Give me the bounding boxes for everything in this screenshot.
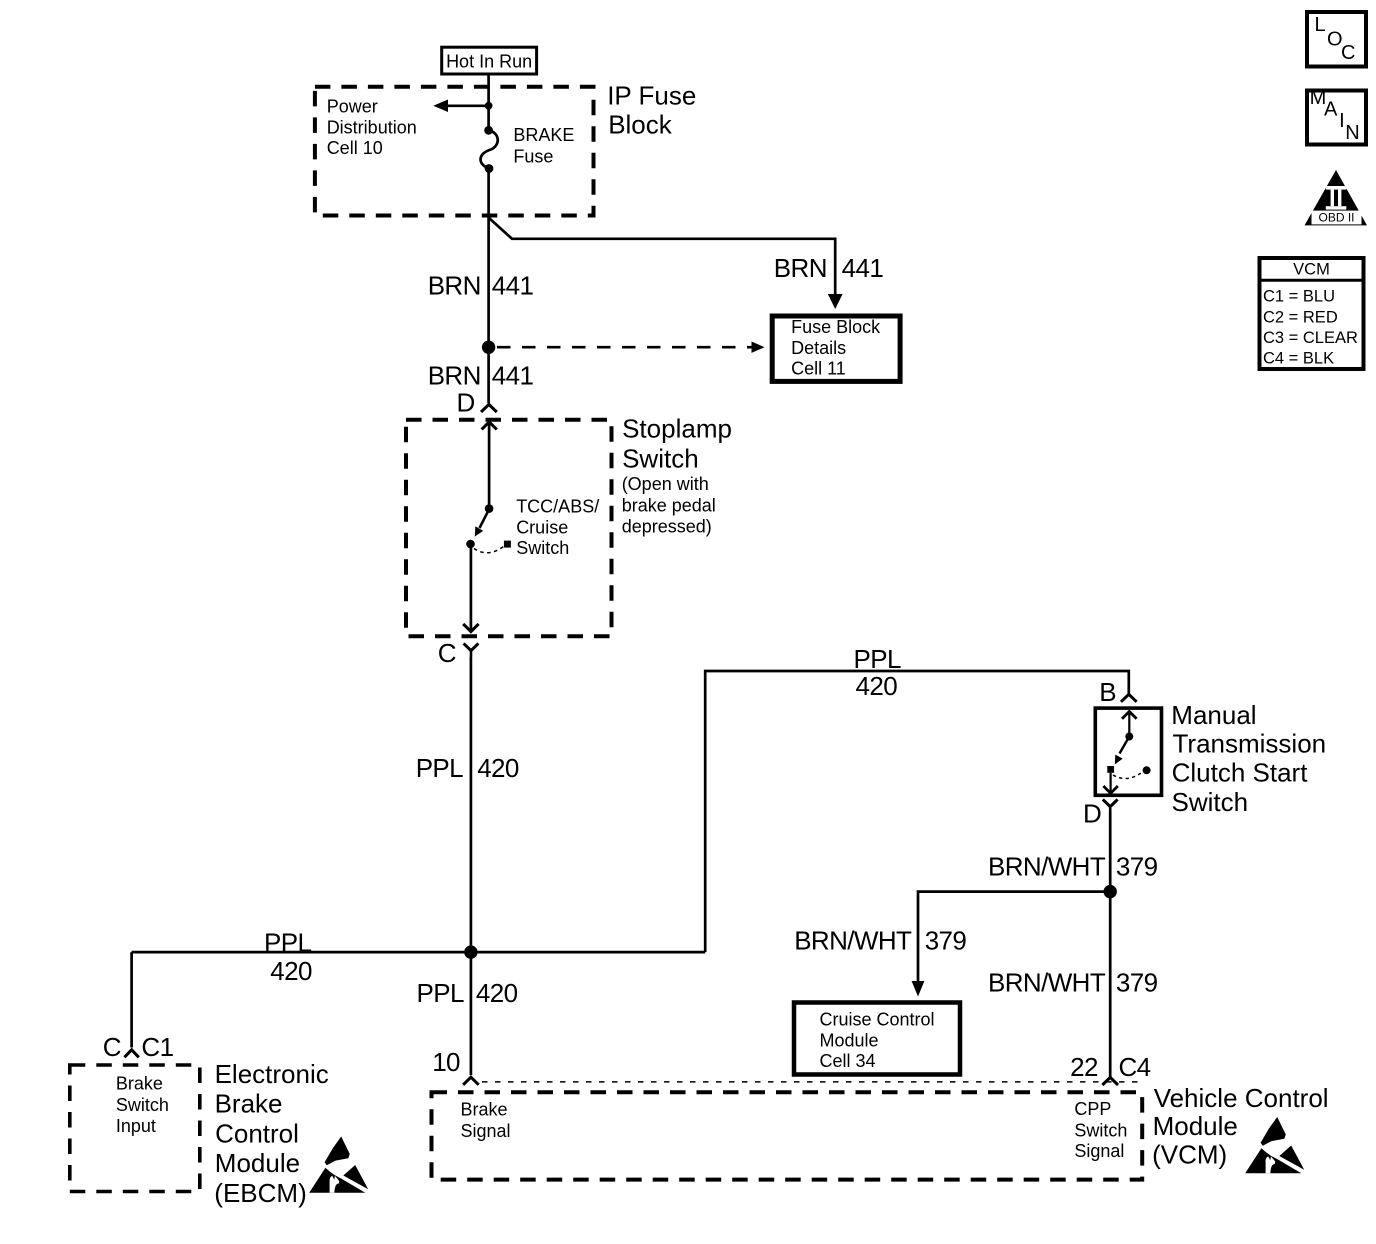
svg-text:VCM: VCM	[1293, 260, 1330, 278]
svg-text:Module: Module	[215, 1148, 300, 1178]
svg-text:PPL: PPL	[416, 753, 463, 783]
label BRN 441 (upper main)	[428, 270, 534, 300]
label BRN/WHT 379 (below junction)	[988, 967, 1158, 997]
svg-text:379: 379	[925, 926, 967, 956]
svg-text:Input: Input	[116, 1116, 156, 1136]
Hot In Run box	[442, 47, 537, 74]
svg-text:C1 = BLU: C1 = BLU	[1263, 288, 1335, 306]
svg-text:IP Fuse: IP Fuse	[607, 80, 696, 110]
svg-text:C1: C1	[141, 1032, 173, 1062]
svg-text:C3 = CLEAR: C3 = CLEAR	[1263, 329, 1358, 347]
label BRN 441 (branch)	[774, 253, 884, 283]
thin dashed connector face line	[482, 1081, 1141, 1083]
svg-text:Stoplamp: Stoplamp	[622, 414, 732, 444]
svg-text:B: B	[1099, 677, 1116, 707]
wire PPL 420 to top-right (up and across to B)	[705, 671, 1129, 952]
svg-text:BRAKE: BRAKE	[513, 125, 574, 145]
label BRN 441 (lower main)	[428, 361, 534, 391]
CPP Switch Signal label	[1074, 1099, 1127, 1161]
Brake Signal label	[461, 1099, 511, 1140]
(Open with brake pedal depressed) note	[622, 474, 716, 536]
svg-text:Cell 11: Cell 11	[791, 359, 846, 379]
svg-text:OBD II: OBD II	[1318, 211, 1354, 225]
svg-text:C4: C4	[1119, 1052, 1151, 1082]
wire BRN 441 main vertical below fuse	[487, 168, 490, 403]
svg-text:Cruise: Cruise	[516, 517, 568, 537]
connector 10 female chevron	[463, 1077, 479, 1085]
svg-text:depressed): depressed)	[622, 517, 712, 537]
svg-text:379: 379	[1116, 967, 1158, 997]
svg-text:BRN: BRN	[428, 361, 481, 391]
svg-text:BRN/WHT: BRN/WHT	[794, 926, 912, 956]
svg-text:C: C	[1341, 42, 1355, 64]
node junction at fuse feed	[485, 102, 493, 110]
Electronic Brake Control Module dashed box	[70, 1065, 200, 1192]
svg-text:Manual: Manual	[1171, 700, 1256, 730]
svg-text:(EBCM): (EBCM)	[214, 1178, 306, 1208]
svg-text:C: C	[438, 638, 456, 668]
connector B female chevron	[1121, 694, 1137, 702]
svg-text:Transmission: Transmission	[1173, 728, 1327, 758]
Brake Switch Input label	[116, 1073, 169, 1136]
MT switch up-arrow inside box	[1122, 712, 1137, 737]
svg-text:C2 = RED: C2 = RED	[1263, 309, 1338, 327]
wire PPL 420 main vertical to junction	[470, 657, 473, 952]
wire PPL 420 left branch to EBCM	[130, 952, 133, 1047]
svg-text:PPL: PPL	[854, 644, 901, 674]
svg-text:Switch: Switch	[622, 443, 699, 473]
svg-text:Module: Module	[820, 1031, 879, 1051]
connector C male Y	[464, 643, 479, 657]
wire horizontal main bus at y952	[132, 951, 706, 954]
connector C4 female chevron	[1102, 1077, 1118, 1085]
wire BRN/WHT vertical from MT switch	[1109, 813, 1112, 1078]
connector C/C1 inverted-Y at EBCM	[124, 1050, 138, 1058]
Cruise Control Module Cell 34 box	[794, 1003, 960, 1075]
connector D female chevron	[481, 405, 497, 413]
svg-text:Switch: Switch	[1074, 1121, 1127, 1141]
MAIN legend box	[1307, 87, 1366, 144]
svg-text:441: 441	[842, 253, 884, 283]
IP Fuse Block title	[607, 80, 696, 139]
Power Distribution Cell 10 label	[327, 97, 417, 158]
svg-text:441: 441	[492, 361, 534, 391]
svg-text:Switch: Switch	[1172, 787, 1249, 817]
svg-text:Signal: Signal	[461, 1121, 511, 1141]
VCM connector color table	[1258, 258, 1365, 369]
wire PPL 420 lower to VCM pin 10	[470, 952, 473, 1075]
svg-text:brake pedal: brake pedal	[622, 495, 716, 515]
svg-text:Electronic: Electronic	[215, 1059, 329, 1089]
svg-text:BRN/WHT: BRN/WHT	[988, 852, 1106, 882]
svg-text:Brake: Brake	[461, 1099, 508, 1119]
ESD symbol (VCM)	[1245, 1117, 1304, 1173]
label BRN/WHT 379 (above junction)	[988, 852, 1158, 882]
svg-text:Distribution: Distribution	[327, 117, 417, 137]
wire branch to Cruise Control Module	[912, 892, 1111, 997]
svg-text:420: 420	[477, 753, 519, 783]
MT clutch switch title	[1171, 700, 1326, 817]
svg-text:Switch: Switch	[116, 1095, 169, 1115]
svg-text:C4 = BLK: C4 = BLK	[1263, 350, 1334, 368]
dashed wire arrow to Fuse Block Details	[497, 342, 765, 353]
svg-text:A: A	[1324, 99, 1338, 121]
svg-text:Clutch Start: Clutch Start	[1172, 757, 1309, 787]
fuse BRAKE (S-curve element)	[481, 126, 498, 173]
BRAKE Fuse label	[513, 125, 574, 166]
IP Fuse Block dashed box	[315, 87, 594, 216]
Vehicle Control Module dashed box	[432, 1092, 1143, 1179]
stoplamp switch TCC/ABS/Cruise (lever + contacts)	[466, 504, 511, 552]
svg-text:420: 420	[856, 671, 898, 701]
label C C1 connector	[103, 1032, 174, 1062]
svg-text:Module: Module	[1153, 1111, 1238, 1141]
svg-text:Cell 34: Cell 34	[820, 1051, 876, 1071]
svg-text:Brake: Brake	[116, 1073, 163, 1093]
svg-text:TCC/ABS/: TCC/ABS/	[516, 496, 599, 516]
connector D male Y (MT)	[1103, 799, 1118, 812]
TCC/ABS/ Cruise Switch label	[516, 496, 599, 558]
svg-text:Cell 10: Cell 10	[327, 138, 383, 158]
svg-text:Signal: Signal	[1074, 1141, 1124, 1161]
svg-text:379: 379	[1116, 852, 1158, 882]
label PPL 420 (mid)	[416, 753, 519, 783]
label PPL 420 (lower)	[417, 978, 518, 1008]
svg-text:(Open with: (Open with	[622, 474, 709, 494]
Vehicle Control Module (VCM) title	[1152, 1083, 1328, 1170]
svg-text:Fuse: Fuse	[513, 147, 553, 167]
svg-text:BRN: BRN	[428, 270, 481, 300]
label BRN/WHT 379 (left branch)	[794, 926, 966, 956]
svg-text:Switch: Switch	[516, 538, 569, 558]
svg-text:D: D	[1083, 798, 1101, 828]
svg-text:Fuse Block: Fuse Block	[791, 317, 881, 337]
node main junction	[464, 945, 477, 958]
Electronic Brake Control Module (EBCM) title	[214, 1059, 328, 1208]
svg-text:22: 22	[1070, 1052, 1098, 1082]
MT switch lower wire with down-arrow	[1103, 773, 1117, 794]
svg-text:441: 441	[492, 270, 534, 300]
svg-text:420: 420	[270, 956, 312, 986]
node junction to fuse block details	[482, 341, 495, 354]
wire from Hot In Run into fuse block	[487, 74, 490, 130]
Manual Transmission Clutch Start Switch box	[1095, 708, 1161, 795]
svg-text:Control: Control	[215, 1118, 299, 1148]
wire arrow to Power Distribution	[433, 100, 488, 113]
svg-text:10: 10	[432, 1047, 460, 1077]
svg-text:L: L	[1315, 14, 1326, 36]
wire branch to Fuse Block Details (diagonal + horizontal + down arrow)	[489, 218, 842, 309]
LOC legend box	[1307, 12, 1366, 67]
svg-text:Block: Block	[608, 110, 673, 140]
svg-text:Vehicle Control: Vehicle Control	[1154, 1083, 1329, 1113]
svg-text:D: D	[457, 388, 475, 418]
svg-text:Brake: Brake	[215, 1088, 283, 1118]
node junction BRN/WHT	[1104, 885, 1117, 898]
svg-text:420: 420	[476, 978, 518, 1008]
label PPL 420 (left stacked)	[264, 927, 312, 986]
svg-text:Hot In Run: Hot In Run	[446, 51, 532, 71]
svg-text:Details: Details	[791, 338, 846, 358]
svg-text:PPL: PPL	[417, 978, 464, 1008]
label PPL 420 (top right)	[854, 644, 901, 701]
svg-text:N: N	[1345, 122, 1359, 144]
Stoplamp Switch title	[622, 414, 732, 474]
svg-text:BRN/WHT: BRN/WHT	[988, 967, 1106, 997]
svg-text:CPP: CPP	[1074, 1099, 1111, 1119]
svg-text:PPL: PPL	[264, 927, 311, 957]
Fuse Block Details Cell 11 box	[772, 316, 900, 381]
label 22 C4 connector	[1070, 1052, 1151, 1082]
Stoplamp Switch dashed box	[406, 420, 612, 637]
svg-text:BRN: BRN	[774, 253, 827, 283]
svg-text:C: C	[103, 1032, 121, 1062]
svg-text:(VCM): (VCM)	[1152, 1139, 1227, 1169]
ESD symbol (EBCM)	[309, 1137, 368, 1193]
svg-text:Power: Power	[327, 97, 378, 117]
stoplamp switch up-arrow inside box	[482, 422, 497, 509]
stoplamp switch lower wire with down-arrow	[463, 548, 478, 632]
MT switch lever + contacts	[1107, 733, 1150, 779]
svg-text:Cruise Control: Cruise Control	[820, 1010, 935, 1030]
OBD II triangle symbol	[1305, 170, 1368, 225]
svg-text:I: I	[1339, 110, 1345, 132]
